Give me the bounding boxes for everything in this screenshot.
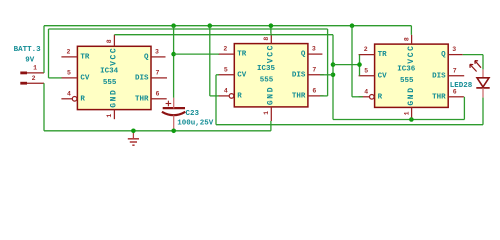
IC34 pin Q (pin 3) stub bbox=[151, 56, 166, 58]
IC35 pin Q (pin 3) stub bbox=[308, 53, 323, 55]
wire net C vertical IC36 TR to CV bbox=[359, 55, 361, 76]
IC34 pin VCC (pin 8) stub bbox=[113, 35, 115, 47]
svg-text:CV: CV bbox=[80, 75, 90, 83]
wire net B into IC35 THR bbox=[320, 95, 328, 97]
svg-text:1: 1 bbox=[263, 111, 270, 115]
LED LED28 anode pin stub bbox=[482, 69, 484, 77]
IC IC34 555 timer body bbox=[77, 46, 151, 109]
LED LED28 cathode pin stub bbox=[482, 88, 484, 98]
IC36 pin TR (pin 2) stub bbox=[359, 54, 375, 56]
wire net G IC35 CV drop bbox=[215, 75, 217, 125]
svg-text:CV: CV bbox=[378, 72, 388, 80]
svg-text:8: 8 bbox=[403, 37, 410, 41]
junction rail/IC35 VCC bbox=[269, 23, 274, 28]
wire net G bottom horizontal y=124.7 bbox=[216, 124, 483, 126]
wire net H LED anode drop bbox=[482, 55, 484, 70]
svg-text:1: 1 bbox=[403, 111, 410, 115]
svg-text:IC35: IC35 bbox=[257, 65, 276, 73]
junction x333/cross-wire bbox=[331, 62, 336, 67]
svg-text:CV: CV bbox=[237, 71, 247, 79]
wire net B into IC34 CV bbox=[49, 77, 62, 79]
junction bottom/IC36 GND bbox=[409, 117, 414, 122]
svg-text:4: 4 bbox=[67, 91, 71, 98]
battery BATT.3 pin 1 plate nub bbox=[20, 72, 27, 75]
wire net GND battery pin 2 drop bbox=[43, 83, 45, 131]
svg-text:IC34: IC34 bbox=[100, 68, 119, 76]
junction rail/x209.8 bbox=[208, 23, 213, 28]
svg-text:555: 555 bbox=[103, 79, 117, 87]
svg-text:LED28: LED28 bbox=[450, 82, 473, 90]
wire net E into IC35 R bbox=[210, 95, 219, 97]
svg-text:555: 555 bbox=[260, 76, 274, 84]
svg-text:7: 7 bbox=[312, 67, 316, 74]
svg-text:7: 7 bbox=[156, 70, 160, 77]
wire net GND bottom rail bbox=[44, 130, 271, 132]
LED LED28 emission arrow 1 bbox=[470, 64, 477, 71]
wire net B drop to IC34 CV bbox=[48, 29, 50, 78]
svg-text:VCC: VCC bbox=[407, 44, 416, 63]
svg-text:VCC: VCC bbox=[110, 47, 119, 66]
svg-text:4: 4 bbox=[224, 88, 228, 95]
svg-text:5: 5 bbox=[364, 68, 368, 75]
wire net B drop to IC35 THR bbox=[327, 29, 329, 96]
svg-text:TR: TR bbox=[237, 51, 247, 59]
svg-text:GND: GND bbox=[267, 86, 276, 105]
IC35 pin GND (pin 1) stub bbox=[270, 107, 272, 121]
wire net E drop x=209.8 to IC35 R bbox=[209, 26, 211, 96]
svg-text:5: 5 bbox=[224, 67, 228, 74]
IC34 pin DIS (pin 7) stub bbox=[151, 77, 167, 79]
svg-text:DIS: DIS bbox=[135, 75, 149, 83]
svg-text:GND: GND bbox=[110, 89, 119, 108]
capacitor C23 bottom curved plate bbox=[162, 112, 185, 115]
junction cross-wire/x359.5 bbox=[357, 62, 362, 67]
svg-text:Q: Q bbox=[301, 51, 306, 59]
IC35 pin R (pin 4) stub with inversion bubble bbox=[218, 95, 229, 97]
junction x173.6/IC35 TR bbox=[171, 52, 176, 57]
svg-text:BATT.3: BATT.3 bbox=[14, 46, 42, 54]
svg-text:TR: TR bbox=[80, 54, 90, 62]
svg-text:THR: THR bbox=[292, 93, 306, 101]
IC35 pin VCC (pin 8) stub bbox=[270, 34, 272, 44]
svg-text:TR: TR bbox=[378, 51, 388, 59]
junction rail/ground symbol bbox=[131, 129, 136, 134]
wire net C drop at x=333 bbox=[332, 35, 334, 120]
svg-text:3: 3 bbox=[155, 49, 159, 56]
ground symbol bar 3 bbox=[132, 144, 134, 146]
wire net H IC36 Q to LED bbox=[463, 54, 483, 56]
capacitor C23 top plate bbox=[163, 107, 185, 109]
wire net D into IC35 TR bbox=[174, 53, 219, 55]
svg-text:Q: Q bbox=[144, 54, 149, 62]
svg-text:IC36: IC36 bbox=[397, 65, 416, 73]
svg-text:THR: THR bbox=[135, 95, 149, 103]
wire net B horizontal y=29 bbox=[49, 28, 328, 30]
svg-text:100u,25V: 100u,25V bbox=[177, 119, 214, 127]
wire net G LED cathode riser bbox=[482, 98, 484, 125]
capacitor C23 bottom pin stub bbox=[173, 115, 175, 130]
IC34 pin THR (pin 6) stub bbox=[151, 98, 167, 100]
wire net C from IC35 DIS bbox=[320, 74, 333, 76]
IC34 pin GND (pin 1) stub (dangling) bbox=[113, 110, 115, 120]
IC36 pin CV (pin 5) stub bbox=[359, 75, 375, 77]
svg-text:8: 8 bbox=[106, 39, 113, 43]
svg-text:8: 8 bbox=[263, 37, 270, 41]
svg-text:GND: GND bbox=[407, 86, 416, 105]
svg-text:VCC: VCC bbox=[267, 44, 276, 63]
svg-text:3: 3 bbox=[452, 46, 456, 53]
wire net F into IC36 R bbox=[352, 96, 363, 98]
LED LED28 emission arrow 2 bbox=[475, 61, 481, 68]
svg-text:2: 2 bbox=[32, 75, 36, 82]
wire net D drop x=173.6 to C23 bbox=[173, 26, 175, 98]
ground symbol stub bbox=[132, 131, 134, 138]
svg-text:9V: 9V bbox=[25, 57, 35, 65]
svg-text:Q: Q bbox=[441, 51, 446, 59]
IC35 pin CV (pin 5) stub bbox=[218, 74, 234, 76]
ground symbol bar 2 bbox=[130, 141, 137, 143]
IC36 pin Q (pin 3) stub bbox=[448, 54, 463, 56]
IC35 pin DIS (pin 7) stub bbox=[308, 74, 324, 76]
IC34 pin R (pin 4) stub with inversion bubble bbox=[61, 98, 72, 100]
svg-text:7: 7 bbox=[453, 68, 457, 75]
wire net VCC: top rail bbox=[44, 25, 411, 27]
junction rail/C23 bbox=[171, 129, 176, 134]
junction x333/IC35 DIS bbox=[331, 73, 336, 78]
svg-text:THR: THR bbox=[432, 93, 446, 101]
IC36 pin THR (pin 6) stub bbox=[448, 96, 464, 98]
wire net C cross-wire to x=359.5 bbox=[333, 64, 360, 66]
svg-text:555: 555 bbox=[400, 77, 414, 85]
svg-text:2: 2 bbox=[66, 49, 70, 56]
wire net G IC35 CV corner bbox=[216, 74, 219, 76]
IC36 pin VCC (pin 8) stub bbox=[411, 35, 413, 44]
capacitor C23 top pin stub bbox=[173, 98, 175, 109]
svg-text:1: 1 bbox=[33, 64, 37, 71]
svg-text:R: R bbox=[237, 93, 242, 101]
IC IC36 555 timer body bbox=[375, 44, 449, 107]
svg-text:DIS: DIS bbox=[432, 72, 446, 80]
svg-text:DIS: DIS bbox=[292, 71, 306, 79]
IC34 pin CV (pin 5) stub bbox=[61, 77, 77, 79]
capacitor C23 plus sign bbox=[166, 103, 172, 105]
IC36 pin GND (pin 1) stub bbox=[411, 107, 413, 117]
wire net VCC: stub above IC35 VCC bbox=[270, 26, 272, 34]
LED LED28 triangle bbox=[477, 78, 489, 87]
svg-text:5: 5 bbox=[67, 70, 71, 77]
svg-text:4: 4 bbox=[364, 89, 368, 96]
IC35 pin THR (pin 6) stub bbox=[308, 95, 324, 97]
ground symbol bar 1 bbox=[128, 138, 139, 140]
svg-text:C23: C23 bbox=[186, 110, 200, 118]
junction rail/x352 bbox=[350, 23, 355, 28]
wire net C bottom horizontal y=119.5 bbox=[333, 119, 464, 121]
wire net C IC36 GND tail bbox=[410, 118, 412, 120]
svg-text:3: 3 bbox=[312, 46, 316, 53]
svg-text:2: 2 bbox=[223, 46, 227, 53]
IC36 pin R (pin 4) stub with inversion bubble bbox=[359, 96, 370, 98]
wire net C horizontal y=34.7 from IC34 VCC bbox=[114, 34, 333, 36]
battery BATT.3 pin 2 lead bbox=[27, 82, 44, 84]
IC35 pin TR (pin 2) stub bbox=[218, 53, 234, 55]
svg-text:6: 6 bbox=[156, 91, 160, 98]
wire net VCC: drop to IC36 VCC bbox=[410, 26, 412, 35]
IC34 pin TR (pin 2) stub bbox=[61, 56, 77, 58]
svg-text:2: 2 bbox=[364, 46, 368, 53]
wire net F drop x=352 to IC36 R bbox=[351, 26, 353, 97]
IC IC35 555 timer body bbox=[234, 44, 308, 107]
junction rail/x173.6 bbox=[171, 23, 176, 28]
svg-text:6: 6 bbox=[312, 88, 316, 95]
wire net C riser to IC36 THR bbox=[463, 97, 465, 120]
wire net VCC: battery pin 1 riser bbox=[43, 26, 45, 73]
battery BATT.3 pin 1 lead bbox=[27, 72, 44, 74]
LED LED28 cathode bar bbox=[476, 87, 489, 89]
IC36 pin DIS (pin 7) stub bbox=[448, 75, 464, 77]
svg-text:1: 1 bbox=[106, 114, 113, 118]
wire net GND riser to IC35 GND bbox=[270, 121, 272, 131]
svg-text:R: R bbox=[378, 93, 383, 101]
svg-text:R: R bbox=[80, 95, 85, 103]
battery BATT.3 pin 2 plate nub bbox=[20, 82, 27, 85]
